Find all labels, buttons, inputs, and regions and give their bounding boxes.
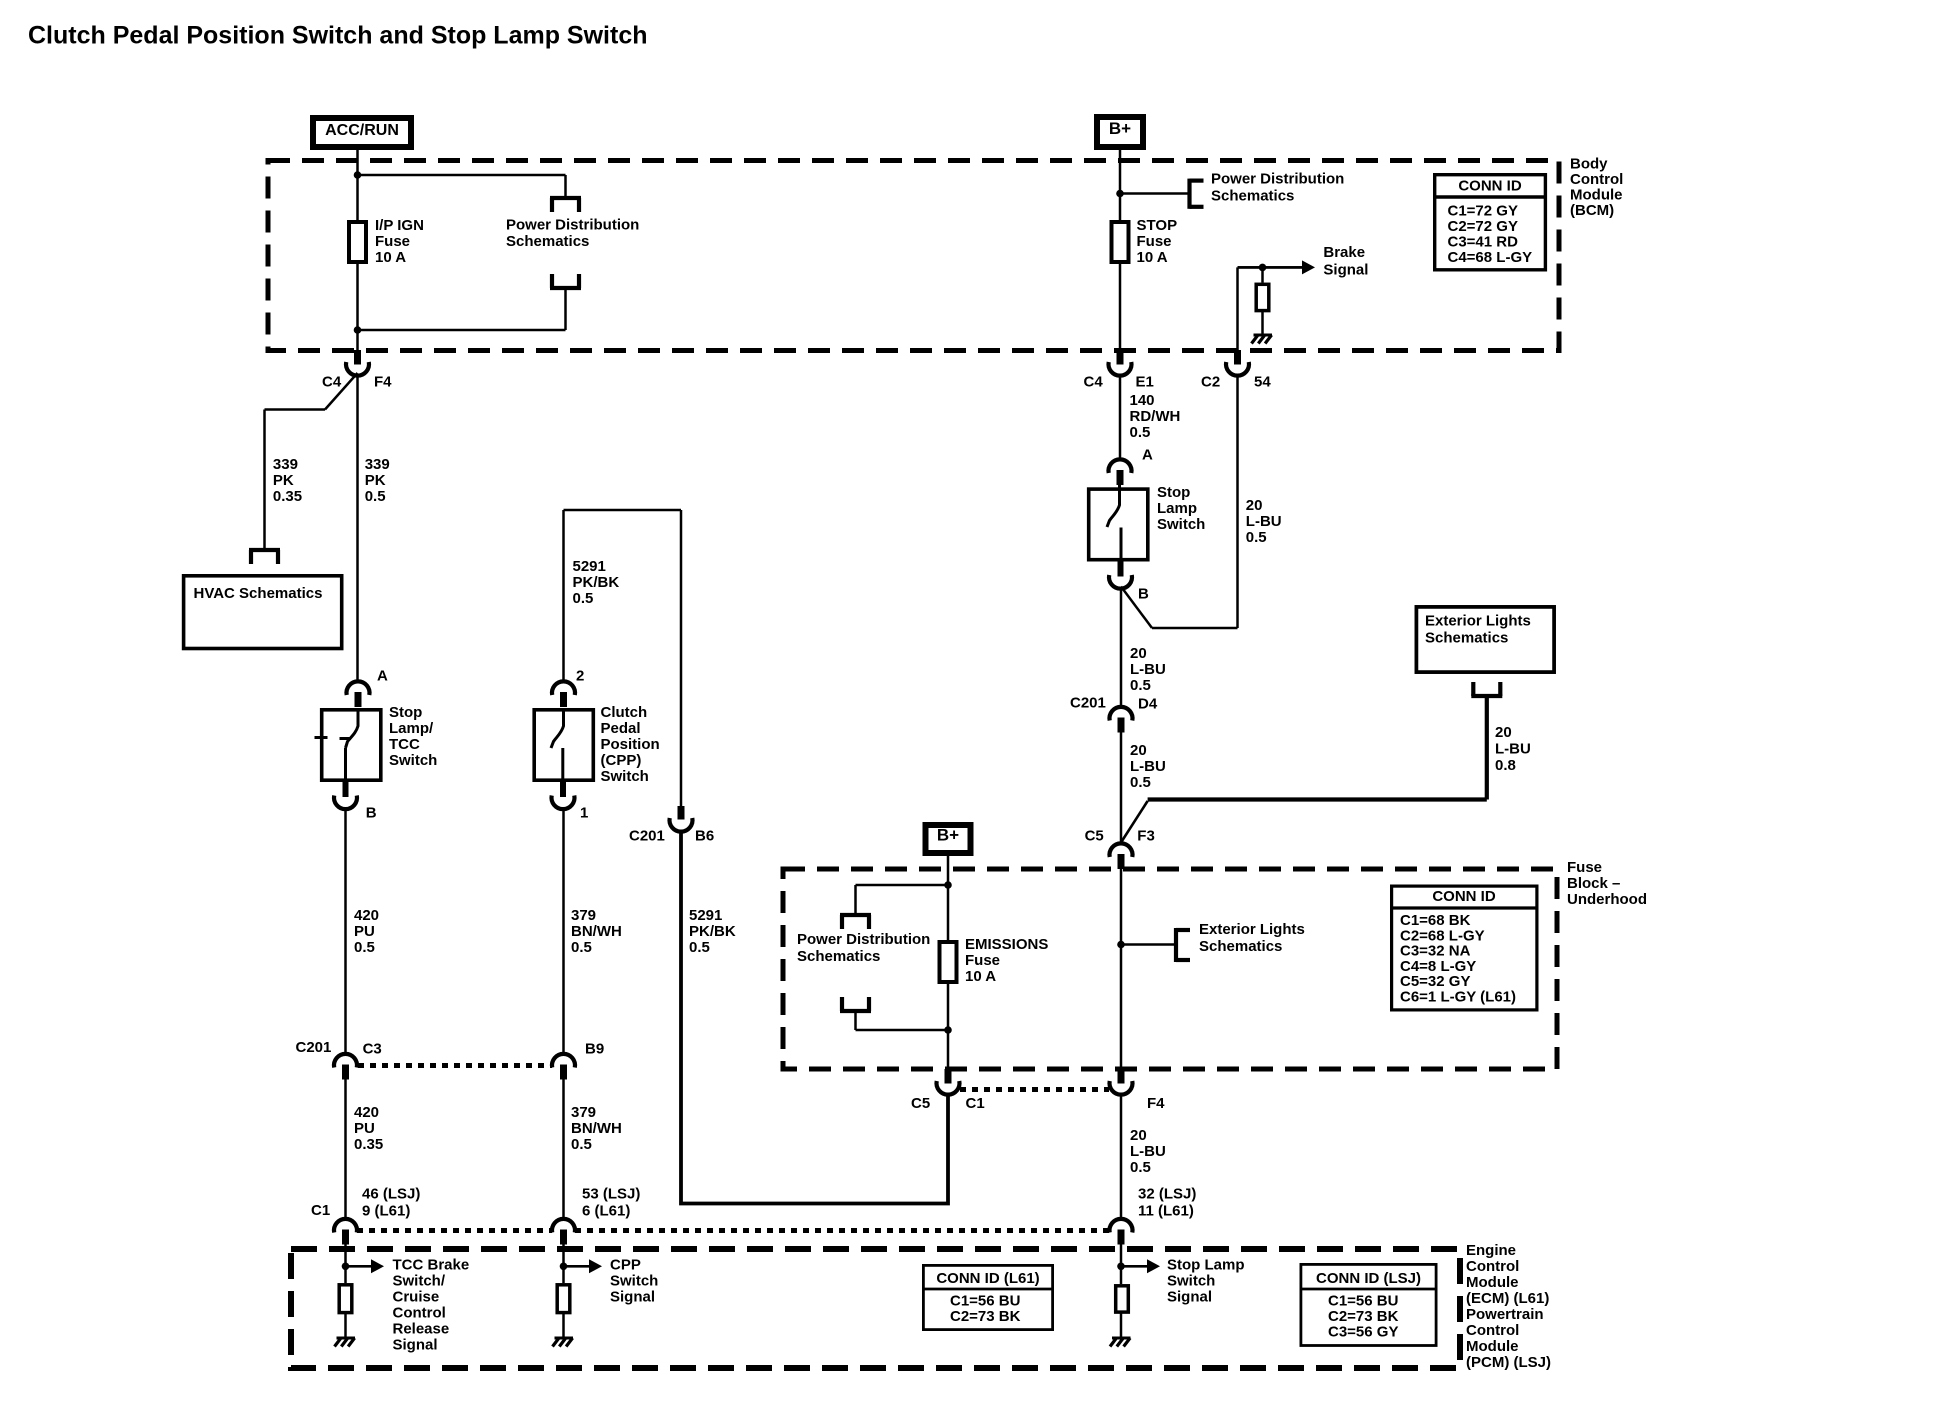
svg-text:C3=56 GY: C3=56 GY — [1328, 1324, 1398, 1341]
svg-text:46 (LSJ): 46 (LSJ) — [362, 1186, 420, 1203]
svg-text:10 A: 10 A — [1137, 249, 1168, 266]
svg-text:0.35: 0.35 — [273, 488, 302, 505]
svg-text:C2: C2 — [1201, 374, 1220, 391]
svg-text:0.5: 0.5 — [1130, 424, 1151, 441]
svg-text:PK: PK — [365, 472, 386, 489]
svg-text:Fuse: Fuse — [1567, 859, 1602, 876]
svg-text:BN/WH: BN/WH — [571, 923, 622, 940]
svg-text:Signal: Signal — [393, 1337, 438, 1354]
svg-text:Module: Module — [1466, 1338, 1519, 1355]
svg-text:Body: Body — [1570, 156, 1608, 173]
svg-text:Lamp: Lamp — [1157, 500, 1197, 517]
svg-text:D4: D4 — [1138, 696, 1158, 713]
svg-text:CONN ID (LSJ): CONN ID (LSJ) — [1316, 1270, 1421, 1287]
svg-text:Control: Control — [1466, 1322, 1519, 1339]
svg-text:PK/BK: PK/BK — [689, 923, 736, 940]
svg-text:STOP: STOP — [1137, 217, 1178, 234]
svg-text:C4=68 L-GY: C4=68 L-GY — [1448, 249, 1533, 266]
svg-text:Position: Position — [601, 736, 660, 753]
svg-text:339: 339 — [365, 456, 390, 473]
svg-text:B+: B+ — [937, 826, 959, 845]
svg-text:10 A: 10 A — [375, 249, 406, 266]
svg-text:2: 2 — [576, 668, 584, 685]
svg-text:Fuse: Fuse — [375, 233, 410, 250]
svg-text:420: 420 — [354, 907, 379, 924]
svg-text:C4: C4 — [322, 374, 342, 391]
svg-text:Cruise: Cruise — [393, 1289, 440, 1306]
svg-text:6 (L61): 6 (L61) — [582, 1203, 630, 1220]
svg-text:20: 20 — [1130, 645, 1147, 662]
svg-text:PU: PU — [354, 1120, 375, 1137]
svg-text:Schematics: Schematics — [1211, 188, 1294, 205]
svg-text:Switch: Switch — [601, 768, 649, 785]
svg-text:140: 140 — [1130, 392, 1155, 409]
svg-text:32 (LSJ): 32 (LSJ) — [1138, 1186, 1196, 1203]
svg-text:420: 420 — [354, 1104, 379, 1121]
svg-text:0.5: 0.5 — [573, 590, 594, 607]
svg-text:C1=56 BU: C1=56 BU — [950, 1293, 1020, 1310]
svg-text:F4: F4 — [1147, 1095, 1165, 1112]
svg-text:C3: C3 — [363, 1041, 382, 1058]
svg-text:Lamp/: Lamp/ — [389, 720, 434, 737]
svg-text:Underhood: Underhood — [1567, 891, 1647, 908]
svg-text:339: 339 — [273, 456, 298, 473]
svg-text:0.5: 0.5 — [689, 939, 710, 956]
svg-text:Power Distribution: Power Distribution — [506, 217, 639, 234]
svg-text:TCC Brake: TCC Brake — [393, 1257, 470, 1274]
svg-text:Stop: Stop — [1157, 484, 1190, 501]
svg-text:Power Distribution: Power Distribution — [1211, 171, 1344, 188]
svg-text:Pedal: Pedal — [601, 720, 641, 737]
svg-text:Clutch: Clutch — [601, 704, 648, 721]
svg-text:Control: Control — [1570, 171, 1623, 188]
svg-text:B+: B+ — [1109, 119, 1131, 138]
svg-text:C1=56 BU: C1=56 BU — [1328, 1293, 1398, 1310]
svg-text:Switch: Switch — [1157, 516, 1205, 533]
svg-text:0.5: 0.5 — [1130, 677, 1151, 694]
svg-text:10 A: 10 A — [965, 968, 996, 985]
svg-text:L-BU: L-BU — [1495, 741, 1531, 758]
svg-text:CPP: CPP — [610, 1257, 641, 1274]
svg-text:0.8: 0.8 — [1495, 757, 1516, 774]
svg-text:Module: Module — [1570, 187, 1623, 204]
svg-text:BN/WH: BN/WH — [571, 1120, 622, 1137]
svg-text:(PCM) (LSJ): (PCM) (LSJ) — [1466, 1354, 1551, 1371]
svg-text:20: 20 — [1495, 724, 1512, 741]
svg-text:Power Distribution: Power Distribution — [797, 931, 930, 948]
svg-text:C1=72 GY: C1=72 GY — [1448, 203, 1518, 220]
svg-text:Exterior Lights: Exterior Lights — [1425, 613, 1531, 630]
svg-text:Control: Control — [393, 1305, 446, 1322]
svg-text:HVAC Schematics: HVAC Schematics — [194, 585, 323, 602]
svg-text:5291: 5291 — [573, 558, 606, 575]
svg-text:L-BU: L-BU — [1130, 758, 1166, 775]
svg-text:Switch: Switch — [1167, 1273, 1215, 1290]
svg-text:C6=1 L-GY (L61): C6=1 L-GY (L61) — [1400, 989, 1516, 1006]
svg-text:Clutch Pedal Position Switch a: Clutch Pedal Position Switch and Stop La… — [28, 22, 648, 50]
svg-text:54: 54 — [1254, 374, 1271, 391]
svg-text:Schematics: Schematics — [506, 233, 589, 250]
svg-text:Signal: Signal — [1167, 1289, 1212, 1306]
svg-text:C5: C5 — [1085, 828, 1104, 845]
svg-text:C201: C201 — [296, 1039, 332, 1056]
svg-text:0.35: 0.35 — [354, 1136, 383, 1153]
svg-text:L-BU: L-BU — [1130, 1143, 1166, 1160]
svg-text:B: B — [366, 805, 377, 822]
svg-text:(CPP): (CPP) — [601, 752, 642, 769]
svg-text:0.5: 0.5 — [571, 1136, 592, 1153]
svg-text:C201: C201 — [1070, 695, 1106, 712]
svg-text:11 (L61): 11 (L61) — [1138, 1203, 1194, 1220]
svg-text:0.5: 0.5 — [571, 939, 592, 956]
svg-text:379: 379 — [571, 907, 596, 924]
svg-text:Block –: Block – — [1567, 875, 1620, 892]
svg-text:C2=73 BK: C2=73 BK — [1328, 1308, 1399, 1325]
svg-text:Module: Module — [1466, 1274, 1519, 1291]
svg-text:B9: B9 — [585, 1041, 604, 1058]
svg-text:F4: F4 — [374, 374, 392, 391]
svg-text:PK: PK — [273, 472, 294, 489]
svg-text:0.5: 0.5 — [365, 488, 386, 505]
svg-text:PK/BK: PK/BK — [573, 574, 620, 591]
svg-text:L-BU: L-BU — [1246, 513, 1282, 530]
svg-text:Powertrain: Powertrain — [1466, 1306, 1544, 1323]
svg-text:Release: Release — [393, 1321, 450, 1338]
svg-text:C2=73 BK: C2=73 BK — [950, 1308, 1021, 1325]
svg-text:CONN ID (L61): CONN ID (L61) — [936, 1270, 1039, 1287]
svg-text:9 (L61): 9 (L61) — [362, 1203, 410, 1220]
svg-text:Stop Lamp: Stop Lamp — [1167, 1257, 1245, 1274]
svg-text:Signal: Signal — [610, 1289, 655, 1306]
svg-text:I/P IGN: I/P IGN — [375, 217, 424, 234]
svg-text:PU: PU — [354, 923, 375, 940]
svg-text:1: 1 — [580, 805, 588, 822]
svg-text:Stop: Stop — [389, 704, 422, 721]
svg-text:Switch: Switch — [610, 1273, 658, 1290]
svg-text:Signal: Signal — [1323, 262, 1368, 279]
svg-text:E1: E1 — [1136, 374, 1154, 391]
svg-text:(ECM) (L61): (ECM) (L61) — [1466, 1290, 1549, 1307]
svg-text:ACC/RUN: ACC/RUN — [325, 122, 399, 139]
svg-text:C3=41 RD: C3=41 RD — [1448, 234, 1519, 251]
svg-text:TCC: TCC — [389, 736, 420, 753]
svg-text:0.5: 0.5 — [1246, 529, 1267, 546]
svg-text:Schematics: Schematics — [797, 948, 880, 965]
svg-text:C5: C5 — [911, 1095, 930, 1112]
svg-text:Fuse: Fuse — [1137, 233, 1172, 250]
svg-text:(BCM): (BCM) — [1570, 202, 1614, 219]
svg-text:Schematics: Schematics — [1425, 630, 1508, 647]
svg-text:20: 20 — [1130, 742, 1147, 759]
svg-text:C4: C4 — [1084, 374, 1104, 391]
svg-text:Control: Control — [1466, 1258, 1519, 1275]
svg-text:B: B — [1138, 586, 1149, 603]
svg-text:F3: F3 — [1137, 828, 1155, 845]
svg-text:A: A — [1142, 447, 1153, 464]
svg-text:20: 20 — [1130, 1127, 1147, 1144]
svg-text:20: 20 — [1246, 497, 1263, 514]
svg-text:Switch/: Switch/ — [393, 1273, 446, 1290]
svg-text:Brake: Brake — [1323, 244, 1365, 261]
svg-text:0.5: 0.5 — [354, 939, 375, 956]
svg-text:C201: C201 — [629, 828, 665, 845]
svg-text:0.5: 0.5 — [1130, 1159, 1151, 1176]
svg-text:Schematics: Schematics — [1199, 938, 1282, 955]
svg-text:RD/WH: RD/WH — [1130, 408, 1181, 425]
svg-text:EMISSIONS: EMISSIONS — [965, 936, 1048, 953]
svg-text:5291: 5291 — [689, 907, 722, 924]
svg-text:CONN ID: CONN ID — [1432, 888, 1496, 905]
svg-text:B6: B6 — [695, 828, 714, 845]
svg-text:C1: C1 — [311, 1202, 330, 1219]
svg-text:Engine: Engine — [1466, 1242, 1516, 1259]
svg-text:A: A — [377, 668, 388, 685]
svg-text:L-BU: L-BU — [1130, 661, 1166, 678]
svg-text:53 (LSJ): 53 (LSJ) — [582, 1186, 640, 1203]
svg-text:Switch: Switch — [389, 752, 437, 769]
svg-text:0.5: 0.5 — [1130, 774, 1151, 791]
svg-text:C1: C1 — [966, 1095, 985, 1112]
svg-text:C2=72 GY: C2=72 GY — [1448, 218, 1518, 235]
svg-text:Fuse: Fuse — [965, 952, 1000, 969]
svg-text:379: 379 — [571, 1104, 596, 1121]
svg-text:Exterior Lights: Exterior Lights — [1199, 921, 1305, 938]
svg-text:CONN ID: CONN ID — [1458, 178, 1522, 195]
